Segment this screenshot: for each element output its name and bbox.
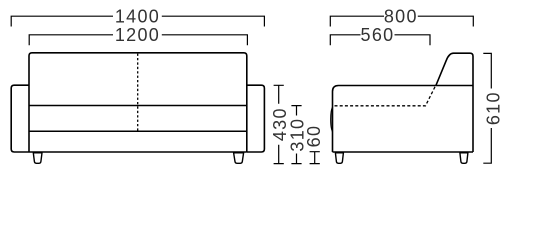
- sofa front view: right armrest: [247, 85, 265, 152]
- sofa front view: seat cushion bottom line: [29, 130, 247, 132]
- svg-text:60: 60: [304, 125, 324, 148]
- dimension 560: line with end hooks: [330, 35, 430, 46]
- sofa front view: left armrest: [11, 85, 29, 152]
- svg-text:560: 560: [361, 25, 395, 45]
- sofa side view: right edge: [472, 86, 474, 153]
- dimension 1200: line with end hooks: [29, 35, 247, 46]
- sofa side view: backrest slant and top: [436, 53, 473, 85]
- dimension 1400: line with end hooks: [11, 16, 264, 26]
- dimension 610: vertical line with left hooks: [483, 53, 491, 163]
- sofa front view: seat cushion top line: [29, 105, 247, 107]
- dimension 60: I-bracket: [310, 152, 320, 164]
- sofa side view: right leg: [460, 153, 468, 164]
- svg-text:1200: 1200: [115, 25, 160, 45]
- sofa front view: left leg: [33, 153, 42, 164]
- sofa front view: right leg: [234, 153, 244, 164]
- sofa side view: left edge with rounded top corner: [333, 86, 339, 153]
- sofa side view: left leg: [335, 153, 343, 164]
- svg-text:800: 800: [384, 7, 418, 27]
- dimension 310: vertical line with T-bars: [291, 106, 301, 164]
- sofa front view: base bottom line: [29, 151, 247, 153]
- svg-text:1400: 1400: [115, 7, 160, 27]
- dimension 800: line with end hooks: [330, 16, 473, 26]
- sofa side view: armrest top line: [339, 85, 474, 87]
- sofa front view: dashed center seam: [137, 54, 139, 132]
- sofa side view: bottom line: [333, 151, 474, 153]
- dimension 430: vertical line with T-bars: [274, 85, 284, 163]
- sofa side view: dashed armrest hidden line: [335, 86, 436, 106]
- svg-text:610: 610: [484, 91, 504, 125]
- sofa front view: body: [29, 53, 247, 152]
- sofa side view: seat front bulge: [331, 107, 333, 131]
